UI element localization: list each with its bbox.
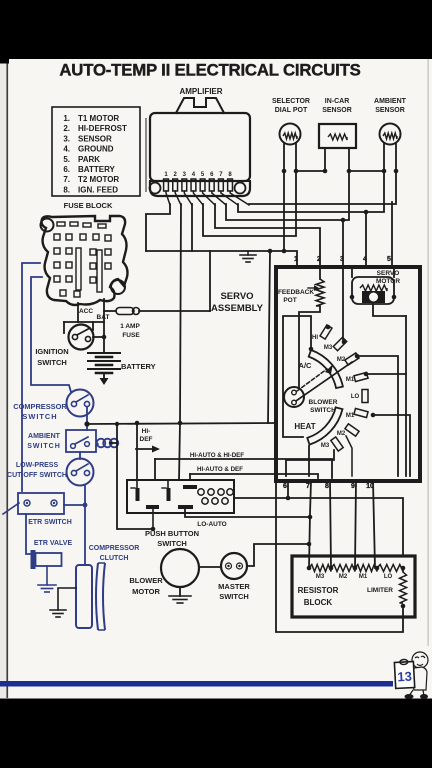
svg-text:IN-CAR: IN-CAR (325, 98, 350, 105)
svg-text:SERVO: SERVO (220, 291, 253, 302)
svg-text:M3: M3 (321, 443, 330, 449)
svg-text:6: 6 (283, 483, 287, 490)
svg-text:HI-AUTO & DEF: HI-AUTO & DEF (197, 466, 243, 473)
svg-text:HI: HI (312, 335, 318, 341)
svg-text:GROUND: GROUND (78, 145, 114, 154)
svg-text:3.: 3. (63, 134, 70, 143)
svg-text:A/C: A/C (299, 361, 313, 370)
svg-text:8: 8 (325, 483, 329, 490)
svg-text:BATTERY: BATTERY (121, 362, 156, 371)
svg-text:HI-DEFROST: HI-DEFROST (78, 124, 127, 133)
svg-text:FEEDBACK: FEEDBACK (278, 289, 314, 296)
svg-text:7.: 7. (63, 175, 70, 184)
svg-text:SWITCH: SWITCH (37, 358, 67, 367)
svg-text:M3: M3 (316, 574, 325, 580)
svg-text:HI-: HI- (142, 428, 151, 435)
svg-text:4.: 4. (63, 145, 70, 154)
svg-text:MOTOR: MOTOR (376, 278, 400, 285)
svg-text:M1: M1 (359, 574, 368, 580)
svg-text:9: 9 (351, 483, 355, 490)
svg-text:2.: 2. (63, 124, 70, 133)
svg-text:IGNITION: IGNITION (35, 347, 68, 356)
svg-text:M2: M2 (339, 574, 348, 580)
svg-text:RESISTOR: RESISTOR (298, 586, 339, 595)
svg-text:M3: M3 (324, 345, 333, 351)
svg-text:LIMITER: LIMITER (367, 587, 393, 594)
svg-text:SELECTOR: SELECTOR (272, 98, 310, 105)
svg-text:SWITCH: SWITCH (157, 539, 187, 548)
svg-text:BLOWER: BLOWER (309, 399, 338, 406)
svg-text:POT: POT (283, 297, 296, 304)
svg-text:M1: M1 (346, 413, 355, 419)
svg-text:SERVO: SERVO (377, 270, 400, 277)
svg-text:FUSE BLOCK: FUSE BLOCK (64, 201, 113, 210)
svg-text:COMPRESSOR: COMPRESSOR (13, 402, 67, 411)
svg-text:SWITCH: SWITCH (219, 592, 249, 601)
svg-text:FUSE: FUSE (122, 332, 140, 339)
svg-text:ASSEMBLY: ASSEMBLY (211, 303, 264, 314)
svg-text:CUT-OFF SWITCH: CUT-OFF SWITCH (7, 472, 67, 479)
svg-text:LOW-PRESS: LOW-PRESS (16, 462, 59, 469)
svg-text:PARK: PARK (78, 155, 100, 164)
svg-text:AMPLIFIER: AMPLIFIER (179, 87, 222, 96)
svg-text:BATTERY: BATTERY (78, 165, 116, 174)
svg-text:SWITCH: SWITCH (22, 412, 57, 421)
svg-text:HEAT: HEAT (294, 422, 315, 431)
svg-text:5: 5 (387, 256, 391, 263)
svg-text:ETR SWITCH: ETR SWITCH (28, 519, 72, 526)
svg-text:SWITCH: SWITCH (310, 407, 336, 414)
svg-text:M2: M2 (337, 431, 346, 437)
svg-text:DEF: DEF (140, 436, 153, 443)
svg-text:6.: 6. (63, 165, 70, 174)
svg-text:MASTER: MASTER (218, 582, 250, 591)
svg-text:T2 MOTOR: T2 MOTOR (78, 175, 119, 184)
svg-text:3: 3 (340, 256, 344, 263)
svg-text:AMBIENT: AMBIENT (374, 98, 407, 105)
svg-text:BAT: BAT (97, 314, 110, 321)
svg-text:IGN. FEED: IGN. FEED (78, 185, 118, 194)
svg-text:5.: 5. (63, 155, 70, 164)
svg-text:LO-AUTO: LO-AUTO (197, 521, 227, 528)
svg-text:LO: LO (384, 574, 393, 580)
svg-text:SENSOR: SENSOR (78, 134, 112, 143)
svg-text:LO: LO (351, 394, 360, 400)
svg-text:T1 MOTOR: T1 MOTOR (78, 114, 119, 123)
svg-text:HI-AUTO & HI-DEF: HI-AUTO & HI-DEF (190, 452, 244, 459)
svg-text:DIAL POT: DIAL POT (275, 107, 308, 114)
svg-text:4: 4 (363, 256, 367, 263)
svg-text:SENSOR: SENSOR (375, 107, 405, 114)
svg-text:BLOWER: BLOWER (129, 576, 163, 585)
svg-text:2: 2 (317, 256, 321, 263)
svg-text:1.: 1. (63, 114, 70, 123)
svg-text:1: 1 (294, 256, 298, 263)
svg-text:1 AMP: 1 AMP (120, 323, 140, 330)
svg-text:AUTO-TEMP II ELECTRICAL CIRCUI: AUTO-TEMP II ELECTRICAL CIRCUITS (59, 61, 360, 80)
svg-text:COMPRESSOR: COMPRESSOR (89, 545, 140, 552)
svg-text:SWITCH: SWITCH (27, 443, 61, 450)
svg-text:MOTOR: MOTOR (132, 587, 160, 596)
svg-text:8.: 8. (63, 185, 70, 194)
svg-text:ETR VALVE: ETR VALVE (34, 540, 73, 547)
svg-text:CLUTCH: CLUTCH (100, 555, 129, 562)
svg-text:M1: M1 (346, 377, 355, 383)
svg-text:SENSOR: SENSOR (322, 107, 352, 114)
svg-text:BLOCK: BLOCK (304, 598, 333, 607)
svg-text:7: 7 (306, 483, 310, 490)
svg-text:ACC: ACC (79, 308, 93, 315)
svg-text:M2: M2 (337, 357, 346, 363)
svg-text:AMBIENT: AMBIENT (28, 433, 61, 440)
svg-text:13: 13 (397, 669, 412, 685)
